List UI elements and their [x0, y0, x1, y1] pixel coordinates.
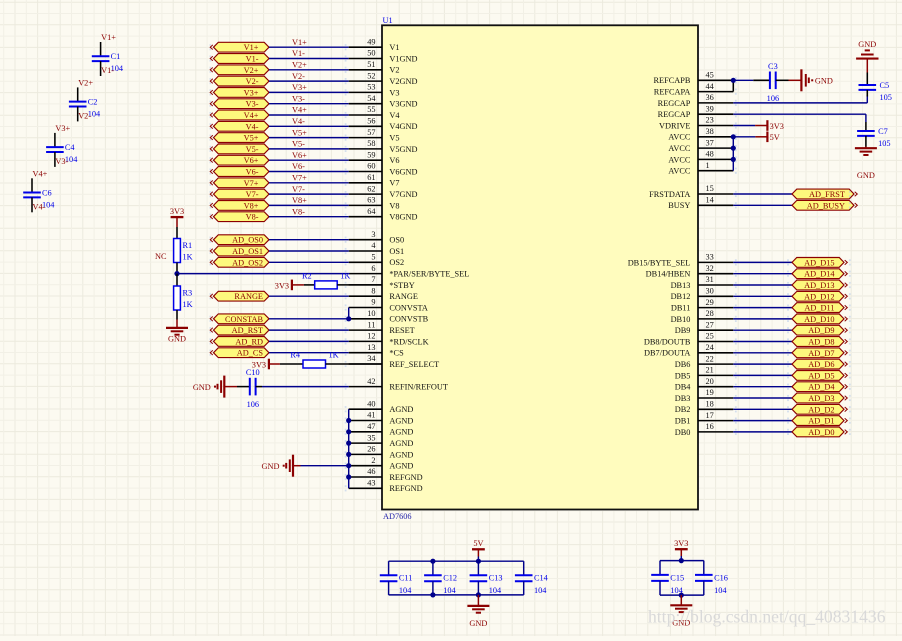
- wire AD_D11: [733, 307, 792, 309]
- pin 57 V5: [349, 137, 382, 139]
- pin 15 FRSTDATA: [698, 193, 733, 195]
- capacitor C3 106: [769, 72, 771, 90]
- ground GND (C10): [223, 376, 225, 398]
- svg-text:15: 15: [706, 184, 714, 193]
- svg-text:V5+: V5+: [244, 134, 259, 143]
- svg-text:64: 64: [367, 207, 376, 216]
- svg-text:V5GND: V5GND: [389, 145, 417, 154]
- wire AD_D13: [733, 284, 792, 286]
- svg-text:CONSTAB: CONSTAB: [225, 315, 264, 324]
- port V3+: [214, 88, 270, 98]
- junction AGND pin 41: [346, 418, 351, 423]
- svg-text:105: 105: [878, 139, 890, 148]
- svg-text:V6-: V6-: [292, 162, 305, 171]
- svg-text:GND: GND: [858, 40, 876, 49]
- port AD_D11: [792, 303, 844, 313]
- wire CONVSTA-CONVSTB tie: [348, 308, 350, 319]
- power 5V (rail): [472, 548, 485, 550]
- svg-text:AD_D4: AD_D4: [808, 383, 835, 392]
- wire AD_D1: [733, 420, 792, 422]
- svg-text:59: 59: [367, 150, 375, 159]
- svg-text:3V3: 3V3: [770, 122, 784, 131]
- ground GND (C3): [800, 69, 802, 91]
- port AD_FRST: [792, 189, 854, 199]
- capacitor C1 104: [100, 42, 102, 56]
- wire node to pin 6: [177, 273, 349, 275]
- wire net V4-: [269, 125, 349, 127]
- port V4-: [214, 121, 270, 131]
- svg-text:NC: NC: [155, 252, 167, 261]
- capacitor C7 105: [865, 122, 867, 131]
- svg-text:24: 24: [706, 343, 715, 352]
- pin 7 *STBY: [349, 284, 382, 286]
- pin 4 OS1: [349, 250, 382, 252]
- port V7+: [214, 178, 270, 188]
- wire net V1-: [269, 58, 349, 60]
- pin 24 DB7/DOUTA: [698, 352, 733, 354]
- svg-text:AGND: AGND: [389, 405, 413, 414]
- pin 5 OS2: [349, 261, 382, 263]
- power 3V3 (VDRIVE): [766, 120, 768, 131]
- pin 60 V6GND: [349, 171, 382, 173]
- pin 29 DB11: [698, 307, 733, 309]
- pin 23 VDRIVE: [698, 125, 733, 127]
- pin 27 DB9: [698, 329, 733, 331]
- svg-text:RANGE: RANGE: [234, 292, 263, 301]
- svg-text:V5-: V5-: [246, 145, 259, 154]
- svg-text:3V3: 3V3: [170, 207, 184, 216]
- svg-text:V1-: V1-: [246, 55, 259, 64]
- port AD_D2: [792, 404, 844, 414]
- pin 26 AGND: [349, 453, 382, 455]
- junction GND rail: [679, 593, 684, 598]
- svg-text:V1: V1: [389, 43, 399, 52]
- svg-text:C6: C6: [42, 189, 52, 198]
- svg-text:V8-: V8-: [292, 207, 305, 216]
- port V6-: [214, 167, 270, 177]
- pin 19 DB3: [698, 397, 733, 399]
- wire net V7-: [269, 193, 349, 195]
- svg-text:17: 17: [706, 411, 714, 420]
- svg-text:AD_D1: AD_D1: [808, 417, 834, 426]
- pin 61 V7: [349, 182, 382, 184]
- svg-text:http://blog.csdn.net/qq_408314: http://blog.csdn.net/qq_40831436: [648, 607, 886, 627]
- capacitor C10 106: [249, 378, 251, 396]
- svg-text:VDRIVE: VDRIVE: [659, 121, 690, 130]
- svg-text:V2+: V2+: [244, 66, 259, 75]
- wire AD_OS0 to pin 3: [269, 239, 349, 241]
- svg-text:41: 41: [367, 411, 375, 420]
- svg-text:28: 28: [706, 309, 714, 318]
- svg-text:C15: C15: [670, 573, 684, 582]
- wire REGCAP pin39 to C7: [733, 113, 866, 115]
- resistor R1 1K: [174, 239, 181, 263]
- svg-text:38: 38: [706, 127, 714, 136]
- pin 16 DB0: [698, 431, 733, 433]
- wire AD_D7: [733, 352, 792, 354]
- wire net V8+: [269, 204, 349, 206]
- svg-text:3V3: 3V3: [674, 539, 688, 548]
- svg-text:V2-: V2-: [246, 77, 259, 86]
- pin 55 V4: [349, 114, 382, 116]
- wire 3V3 to R1: [176, 217, 178, 227]
- port AD_D8: [792, 337, 844, 347]
- wire AD_D4: [733, 386, 792, 388]
- svg-text:U1: U1: [383, 16, 393, 25]
- wire 3V3 to rail: [680, 549, 682, 556]
- svg-text:GND: GND: [193, 383, 211, 392]
- svg-text:V3: V3: [389, 88, 399, 97]
- wire AD_CS to pin 13: [269, 352, 349, 354]
- wire VDRIVE to 3V3: [733, 125, 755, 127]
- svg-text:V5: V5: [389, 134, 399, 143]
- port V4+: [214, 110, 270, 120]
- svg-text:32: 32: [706, 264, 714, 273]
- svg-text:DB14/HBEN: DB14/HBEN: [646, 270, 691, 279]
- svg-text:V6+: V6+: [244, 156, 259, 165]
- pin 42 REFIN/REFOUT: [349, 386, 382, 388]
- svg-text:26: 26: [367, 445, 375, 454]
- port AD_D5: [792, 371, 844, 381]
- pin 53 V3: [349, 91, 382, 93]
- svg-text:33: 33: [706, 253, 714, 262]
- svg-text:V8+: V8+: [292, 196, 307, 205]
- svg-text:104: 104: [399, 586, 412, 595]
- capacitor C5 105: [866, 73, 868, 86]
- svg-text:V1-: V1-: [292, 49, 305, 58]
- wire AD_D15: [733, 261, 792, 263]
- svg-text:V3-: V3-: [55, 157, 68, 166]
- svg-text:V8: V8: [389, 201, 399, 210]
- svg-text:58: 58: [367, 139, 375, 148]
- svg-text:AD_RST: AD_RST: [232, 326, 263, 335]
- pin 1 AVCC: [698, 170, 733, 172]
- svg-text:V3GND: V3GND: [389, 100, 417, 109]
- svg-text:V3+: V3+: [55, 124, 70, 133]
- wire RANGE to pin 8: [269, 295, 349, 297]
- wire GND rail bottom: [389, 594, 524, 596]
- wire AD_D8: [733, 341, 792, 343]
- port AD_D9: [792, 325, 844, 335]
- port RANGE: [214, 291, 270, 301]
- wire net V1+: [269, 46, 349, 48]
- svg-text:AVCC: AVCC: [668, 133, 690, 142]
- pin 35 AGND: [349, 442, 382, 444]
- capacitor C4 104: [54, 133, 56, 147]
- wire AD_D10: [733, 318, 792, 320]
- svg-text:56: 56: [367, 117, 375, 126]
- pin 49 V1: [349, 46, 382, 48]
- svg-text:31: 31: [706, 275, 714, 284]
- pin 33 DB15/BYTE_SEL: [698, 261, 733, 263]
- junction AGND pin 26: [346, 452, 351, 457]
- svg-text:AD_CS: AD_CS: [237, 349, 264, 358]
- wire rail to GND (C15/C16): [680, 595, 682, 605]
- svg-text:REFIN/REFOUT: REFIN/REFOUT: [389, 383, 448, 392]
- svg-text:V4+: V4+: [33, 170, 48, 179]
- svg-text:R2: R2: [302, 271, 312, 280]
- svg-text:35: 35: [367, 433, 375, 442]
- svg-text:V8-: V8-: [246, 213, 259, 222]
- svg-text:V7GND: V7GND: [389, 190, 417, 199]
- wire REFCAPA tie: [732, 80, 734, 91]
- svg-text:1: 1: [706, 161, 710, 170]
- ground GND (below C7): [865, 147, 867, 149]
- svg-text:RESET: RESET: [389, 326, 414, 335]
- port V2-: [214, 76, 270, 86]
- junction AVCC pin 38: [731, 134, 736, 139]
- svg-text:V5+: V5+: [292, 128, 307, 137]
- port V7-: [214, 189, 270, 199]
- svg-text:DB9: DB9: [675, 326, 691, 335]
- ground GND (R3): [176, 327, 178, 329]
- pin 20 DB4: [698, 386, 733, 388]
- wire net V2-: [269, 80, 349, 82]
- wire net V6-: [269, 171, 349, 173]
- port AD_D15: [792, 258, 844, 268]
- pin 52 V2GND: [349, 80, 382, 82]
- svg-text:DB13: DB13: [671, 281, 691, 290]
- capacitor C16 104: [703, 561, 705, 575]
- port V1-: [214, 54, 270, 64]
- junction R1/R3 node: [174, 271, 179, 276]
- svg-text:DB12: DB12: [671, 292, 691, 301]
- pin 14 BUSY: [698, 204, 733, 206]
- wire AD_D0: [733, 431, 792, 433]
- svg-text:16: 16: [706, 422, 714, 431]
- svg-text:AVCC: AVCC: [668, 167, 690, 176]
- wire AGND bus vertical: [348, 409, 350, 488]
- svg-text:63: 63: [367, 196, 375, 205]
- pin 36 REGCAP: [698, 102, 733, 104]
- svg-text:20: 20: [706, 377, 714, 386]
- svg-text:R1: R1: [183, 241, 193, 250]
- wire net V3-: [269, 103, 349, 105]
- port AD_D4: [792, 382, 844, 392]
- svg-text:104: 104: [714, 586, 727, 595]
- svg-text:*RD/SCLK: *RD/SCLK: [389, 337, 428, 346]
- wire REFCAP to C3: [733, 79, 753, 81]
- svg-text:GND: GND: [857, 171, 875, 180]
- svg-text:5V: 5V: [770, 133, 780, 142]
- capacitor C11 104: [388, 561, 390, 575]
- wire AD_D14: [733, 273, 792, 275]
- svg-text:V1+: V1+: [101, 33, 116, 42]
- svg-text:C7: C7: [878, 127, 888, 136]
- svg-text:7: 7: [371, 275, 375, 284]
- pin 50 V1GND: [349, 58, 382, 60]
- pin 62 V7GND: [349, 193, 382, 195]
- svg-text:V1-: V1-: [101, 66, 114, 75]
- junction AGND pin 46: [346, 474, 351, 479]
- svg-text:55: 55: [367, 105, 375, 114]
- svg-text:AGND: AGND: [389, 450, 413, 459]
- port V8+: [214, 201, 270, 211]
- pin 45 REFCAPB: [698, 79, 733, 81]
- svg-text:V7: V7: [389, 179, 399, 188]
- svg-text:12: 12: [367, 332, 375, 341]
- svg-text:V1+: V1+: [292, 38, 307, 47]
- wire C3 to GND: [776, 79, 789, 81]
- pin 30 DB12: [698, 295, 733, 297]
- svg-text:AD_D12: AD_D12: [804, 292, 834, 301]
- junction AGND pin 35: [346, 441, 351, 446]
- port AD_OS2: [214, 257, 270, 267]
- svg-text:AD_OS2: AD_OS2: [232, 258, 263, 267]
- port AD_D12: [792, 291, 844, 301]
- svg-text:GND: GND: [815, 77, 833, 86]
- wire rail to GND: [477, 595, 479, 606]
- svg-text:V7-: V7-: [246, 190, 259, 199]
- wire net V7+: [269, 182, 349, 184]
- svg-text:60: 60: [367, 162, 375, 171]
- svg-text:AGND: AGND: [389, 416, 413, 425]
- svg-text:V6: V6: [389, 156, 399, 165]
- port AD_D14: [792, 269, 844, 279]
- svg-text:C13: C13: [489, 574, 503, 583]
- wire R4 to pin 34: [326, 363, 383, 365]
- svg-text:C10: C10: [246, 368, 260, 377]
- svg-text:V7-: V7-: [292, 185, 305, 194]
- wire AD_RD to pin 12: [269, 340, 349, 342]
- wire 3V3 bar to R4: [269, 363, 280, 365]
- svg-text:REGCAP: REGCAP: [658, 99, 691, 108]
- wire net V8-: [269, 216, 349, 218]
- wire CONSTAB to pin 10: [269, 318, 349, 320]
- svg-text:44: 44: [706, 82, 715, 91]
- svg-text:V4-: V4-: [292, 117, 305, 126]
- pin 54 V3GND: [349, 103, 382, 105]
- svg-text:57: 57: [367, 128, 375, 137]
- pin 56 V4GND: [349, 125, 382, 127]
- svg-text:22: 22: [706, 354, 714, 363]
- svg-text:104: 104: [534, 586, 547, 595]
- svg-text:C16: C16: [714, 573, 728, 582]
- pin 2 AGND: [349, 465, 382, 467]
- pin 37 AVCC: [698, 147, 733, 149]
- svg-text:54: 54: [367, 94, 376, 103]
- port AD_OS0: [214, 235, 270, 245]
- svg-text:REF_SELECT: REF_SELECT: [389, 360, 439, 369]
- capacitor C12 104: [432, 561, 434, 575]
- svg-text:V8GND: V8GND: [389, 213, 417, 222]
- pin 32 DB14/HBEN: [698, 273, 733, 275]
- svg-text:37: 37: [706, 138, 714, 147]
- svg-text:AD_D6: AD_D6: [808, 360, 834, 369]
- svg-text:REGCAP: REGCAP: [658, 110, 691, 119]
- svg-text:AVCC: AVCC: [668, 144, 690, 153]
- svg-text:AD_D11: AD_D11: [804, 304, 834, 313]
- svg-text:BUSY: BUSY: [668, 201, 690, 210]
- svg-text:RANGE: RANGE: [389, 292, 418, 301]
- wire AD_D3: [733, 397, 792, 399]
- pin 46 REFGND: [349, 476, 382, 478]
- port CONSTAB: [214, 314, 270, 324]
- wire net V5-: [269, 148, 349, 150]
- svg-text:8: 8: [371, 286, 375, 295]
- pin 18 DB2: [698, 408, 733, 410]
- svg-text:10: 10: [367, 309, 375, 318]
- capacitor C6 104: [31, 178, 33, 192]
- pin 31 DB13: [698, 284, 733, 286]
- svg-text:V2+: V2+: [78, 79, 93, 88]
- wire FRSTDATA to port: [733, 193, 792, 195]
- wire R3 to GND: [176, 310, 178, 320]
- pin 25 DB8/DOUTB: [698, 341, 733, 343]
- svg-text:1K: 1K: [183, 253, 193, 262]
- svg-text:V8+: V8+: [244, 201, 259, 210]
- wire R2 to pin 7: [337, 284, 382, 286]
- svg-text:AD7606: AD7606: [383, 512, 412, 521]
- junction rail: [430, 559, 435, 564]
- svg-text:46: 46: [367, 467, 375, 476]
- pin 47 AGND: [349, 431, 382, 433]
- svg-text:40: 40: [367, 399, 375, 408]
- port AD_D3: [792, 393, 844, 403]
- svg-text:REFCAPA: REFCAPA: [654, 88, 691, 97]
- svg-text:61: 61: [367, 173, 375, 182]
- junction AGND pin 47: [346, 429, 351, 434]
- svg-text:51: 51: [367, 60, 375, 69]
- wire AD_OS1 to pin 4: [269, 250, 349, 252]
- svg-text:3: 3: [371, 230, 375, 239]
- svg-text:AD_D10: AD_D10: [804, 315, 834, 324]
- svg-text:AD_D7: AD_D7: [808, 349, 834, 358]
- svg-text:30: 30: [706, 287, 714, 296]
- ground GND (above C5): [866, 59, 868, 73]
- svg-text:AD_OS1: AD_OS1: [232, 247, 263, 256]
- svg-text:DB2: DB2: [675, 405, 691, 414]
- wire net V5+: [269, 137, 349, 139]
- port V1+: [214, 42, 270, 52]
- pin 39 REGCAP: [698, 113, 733, 115]
- svg-text:DB5: DB5: [675, 371, 691, 380]
- svg-text:AGND: AGND: [389, 428, 413, 437]
- wire 3V3 rail top: [660, 560, 704, 562]
- grid connection marks: [210, 44, 851, 491]
- svg-text:V1GND: V1GND: [389, 54, 417, 63]
- wire GND to AGND bus: [293, 465, 301, 467]
- svg-text:V5-: V5-: [292, 140, 305, 149]
- capacitor C2 104: [77, 87, 79, 101]
- wire C10 to pin 42: [256, 386, 262, 388]
- svg-text:V7+: V7+: [292, 174, 307, 183]
- port AD_RST: [214, 325, 270, 335]
- port V2+: [214, 65, 270, 75]
- wire AD_D6: [733, 363, 792, 365]
- svg-text:GND: GND: [262, 462, 280, 471]
- pin 58 V5GND: [349, 148, 382, 150]
- svg-text:106: 106: [247, 400, 259, 409]
- svg-text:53: 53: [367, 83, 375, 92]
- port AD_D6: [792, 359, 844, 369]
- svg-text:GND: GND: [168, 335, 186, 344]
- pin 28 DB10: [698, 318, 733, 320]
- pin 41 AGND: [349, 420, 382, 422]
- svg-text:DB10: DB10: [671, 315, 691, 324]
- svg-text:25: 25: [706, 332, 714, 341]
- wire C7 to GND: [865, 147, 867, 149]
- svg-text:REFGND: REFGND: [389, 484, 422, 493]
- port AD_D1: [792, 416, 844, 426]
- svg-text:C2: C2: [88, 98, 98, 107]
- wire 5V to rail: [477, 549, 479, 556]
- svg-text:V4-: V4-: [246, 122, 259, 131]
- svg-text:AD_D0: AD_D0: [808, 428, 834, 437]
- svg-text:DB3: DB3: [675, 394, 691, 403]
- port AD_D0: [792, 427, 844, 437]
- port V5+: [214, 133, 270, 143]
